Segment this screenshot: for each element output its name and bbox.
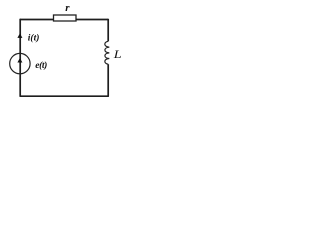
wire left (through source) xyxy=(19,19,21,96)
wire right upper xyxy=(107,19,109,42)
svg-text:e(t): e(t) xyxy=(35,60,47,71)
wire bottom xyxy=(20,95,109,97)
source circle e(t) xyxy=(10,53,30,73)
wire right lower xyxy=(107,64,109,96)
svg-text:r: r xyxy=(65,2,70,14)
inductor L (coil) xyxy=(105,41,109,64)
svg-text:i(t): i(t) xyxy=(28,32,40,43)
resistor r (box) xyxy=(54,15,77,21)
wire top-right segment xyxy=(76,19,108,21)
arrowhead inside source xyxy=(17,58,22,63)
wire top-left segment xyxy=(20,19,54,21)
arrowhead i(t) on left wire xyxy=(17,33,22,38)
svg-text:L: L xyxy=(113,47,122,61)
